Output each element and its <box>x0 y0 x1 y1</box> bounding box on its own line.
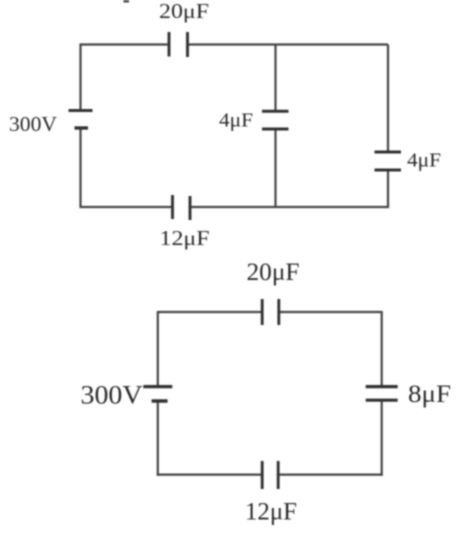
wire middle branch upper (node A to C 4uF middle) <box>274 45 276 112</box>
svg-text:4μF: 4μF <box>219 110 253 132</box>
svg-text:12μF: 12μF <box>245 499 297 526</box>
capacitor C2 4uF middle plates <box>262 110 289 113</box>
capacitor C5 20uF plates (top) <box>261 299 264 325</box>
wire left lower (battery bottom lead) <box>157 401 159 476</box>
wire middle branch lower (C 4uF middle to bottom wire) <box>274 129 276 207</box>
wire right lower (C 4uF right to bottom wire) <box>387 170 389 208</box>
wire right upper (right branch to C 4uF right) <box>387 45 389 153</box>
capacitor C1 20uF plates (top) <box>168 32 171 57</box>
battery V2 300V short plate <box>152 399 168 403</box>
wire left lower (battery bottom lead) <box>79 128 81 208</box>
wire top-right segment (top wire, right of C 20uF) <box>279 311 382 313</box>
capacitor C6 8uF plates (right) <box>366 385 398 388</box>
wire left upper (battery top lead) <box>157 311 159 387</box>
wire top-right segment (top wire, right of C 20uF) <box>188 43 389 45</box>
svg-text:300V: 300V <box>81 381 143 410</box>
wire bottom segment right (bottom wire, right of C 12uF) <box>279 474 383 476</box>
stray mark (cropped text fragment at top edge) <box>124 0 130 3</box>
svg-text:4μF: 4μF <box>407 150 441 172</box>
wire top-left segment (top wire, left of C 20uF) <box>81 43 170 45</box>
svg-text:20μF: 20μF <box>159 0 209 23</box>
capacitor C3 4uF right plates <box>375 151 402 154</box>
svg-text:300V: 300V <box>9 112 57 136</box>
battery V2 300V long plate <box>143 385 172 388</box>
capacitor C4 12uF plates (bottom) <box>171 195 174 219</box>
wire right lower (C 8uF to bottom wire) <box>381 400 383 476</box>
wire bottom-right segment (bottom wire, right of C 12uF) <box>190 206 389 208</box>
wire right upper (to C 8uF) <box>381 311 383 387</box>
svg-text:8μF: 8μF <box>408 381 451 408</box>
wire left upper (battery top lead) <box>79 44 81 111</box>
wire bottom segment left (bottom wire, left of C 12uF) <box>157 474 262 476</box>
battery V1 300V long plate <box>69 109 93 112</box>
svg-text:20μF: 20μF <box>247 259 300 286</box>
wire top-left segment (top wire, left of C 20uF) <box>158 311 262 313</box>
svg-text:12μF: 12μF <box>160 226 210 250</box>
wire bottom-left segment (bottom wire, left of C 12uF) <box>80 206 173 208</box>
battery V1 300V short plate <box>75 126 89 129</box>
capacitor C7 12uF plates (bottom) <box>261 461 264 489</box>
